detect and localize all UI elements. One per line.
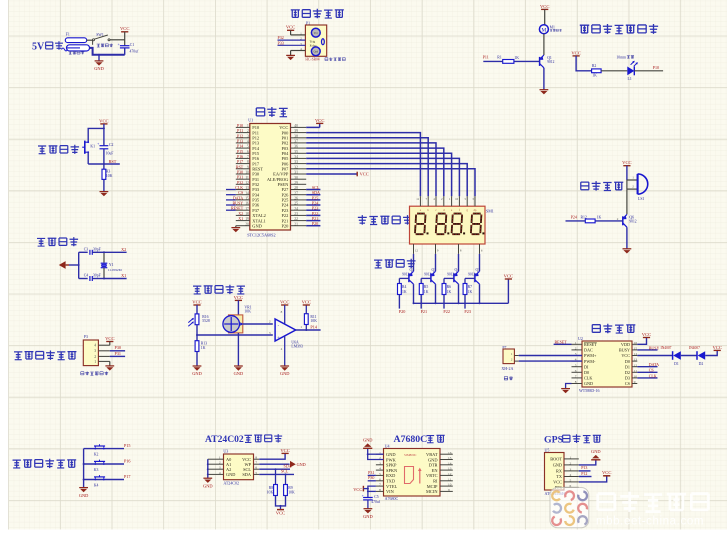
svg-text:27: 27 — [294, 191, 298, 195]
svg-text:P31: P31 — [368, 470, 374, 475]
wire — [103, 149, 105, 169]
svg-text:9012: 9012 — [424, 273, 431, 277]
svg-text:7: 7 — [379, 483, 381, 487]
svg-text:R6: R6 — [447, 285, 452, 289]
svg-text:1: 1 — [570, 456, 572, 460]
svg-text:D3: D3 — [625, 376, 630, 381]
svg-text:R4: R4 — [402, 285, 407, 289]
svg-text:VCC: VCC — [642, 332, 651, 337]
svg-text:P23: P23 — [464, 309, 471, 314]
wire left rail — [207, 459, 209, 478]
power VCC — [504, 273, 513, 279]
wire — [507, 279, 509, 303]
svg-text:P17: P17 — [124, 474, 131, 479]
svg-text:6: 6 — [379, 477, 381, 481]
pin 1 A0 — [208, 456, 231, 462]
pin 5 P14 — [236, 145, 260, 151]
wire P07 to display — [306, 169, 475, 196]
connector 电源接口 — [62, 45, 90, 51]
pin 15 BUSY — [619, 347, 638, 353]
pin 11 — [416, 196, 422, 212]
svg-text:10K: 10K — [288, 490, 295, 494]
svg-text:11: 11 — [416, 197, 419, 201]
wire — [280, 506, 282, 510]
ground — [105, 366, 114, 371]
svg-text:24: 24 — [294, 207, 298, 211]
power VCC — [99, 118, 108, 124]
pushbutton K1 — [82, 141, 89, 154]
svg-text:22: 22 — [294, 217, 298, 221]
svg-text:+: + — [277, 334, 280, 339]
ground — [363, 509, 373, 519]
svg-text:25: 25 — [294, 202, 298, 206]
pin 6 TXD — [376, 477, 395, 483]
svg-text:P30: P30 — [115, 345, 122, 350]
svg-text:1K: 1K — [424, 290, 429, 294]
svg-text:2: 2 — [570, 462, 572, 466]
ground — [234, 366, 244, 376]
pin 9 CS — [625, 380, 637, 386]
svg-text:P22: P22 — [443, 309, 450, 314]
wire — [306, 214, 320, 216]
wire — [196, 325, 198, 341]
svg-text:34: 34 — [294, 155, 298, 159]
svg-text:R5: R5 — [424, 285, 429, 289]
pin 21 P20 — [281, 222, 306, 228]
wire — [626, 180, 628, 189]
svg-text:GND: GND — [203, 483, 213, 488]
svg-text:1K: 1K — [597, 215, 602, 219]
svg-text:MCIN: MCIN — [426, 489, 438, 494]
svg-text:D1: D1 — [625, 364, 630, 369]
wire to op-amp in+ — [197, 334, 273, 336]
svg-text:VCC: VCC — [286, 25, 295, 30]
pin 2 DAC — [572, 347, 594, 353]
svg-text:VCC: VCC — [105, 336, 114, 341]
wire — [104, 278, 127, 280]
pin 4 SPKN — [376, 467, 398, 473]
capacitor C3 — [90, 250, 92, 255]
switch SW1 — [93, 35, 111, 41]
wire — [306, 220, 320, 222]
wire — [544, 9, 546, 25]
display SM1 — [410, 206, 486, 244]
pin 16 VBAT — [426, 451, 453, 457]
svg-text:D2: D2 — [625, 370, 630, 375]
label 电源接口 — [69, 51, 85, 55]
pin 5 — [464, 196, 468, 212]
pin 2 PWK — [376, 456, 397, 462]
svg-text:7: 7 — [255, 461, 257, 465]
pin 11 D2 — [625, 369, 637, 375]
pin 32 P07 — [281, 165, 306, 171]
svg-text:13: 13 — [634, 358, 638, 362]
pin 8 — [459, 244, 462, 254]
svg-text:1K: 1K — [592, 74, 597, 78]
wire P01 to display — [306, 138, 428, 196]
resistor R5 1K — [419, 284, 423, 295]
wire — [579, 476, 592, 478]
wire — [259, 463, 289, 465]
svg-text:31: 31 — [294, 171, 298, 175]
pin 8 VIN — [376, 488, 395, 494]
wire base — [421, 277, 431, 279]
svg-text:39: 39 — [294, 129, 298, 133]
pin 33 P06 — [281, 160, 306, 166]
svg-text:P20: P20 — [281, 223, 289, 228]
svg-text:9: 9 — [448, 488, 450, 492]
wire — [87, 39, 93, 41]
wire — [103, 124, 105, 128]
pin 16 VDD — [621, 341, 637, 347]
svg-text:2: 2 — [300, 37, 302, 41]
svg-text:10K: 10K — [106, 174, 113, 178]
pin 31 EA/VPP — [273, 171, 306, 177]
svg-text:GND: GND — [192, 371, 202, 376]
svg-text:VCC: VCC — [571, 50, 580, 55]
pin 20 GND — [236, 222, 262, 228]
pin 8 GND — [572, 380, 594, 386]
svg-text:12: 12 — [245, 181, 249, 185]
pin 25 P24 — [281, 202, 306, 208]
digit 2 — [436, 214, 450, 235]
svg-text:Y1: Y1 — [109, 263, 114, 267]
svg-text:2: 2 — [219, 461, 221, 465]
wire — [464, 278, 466, 283]
svg-text:K2: K2 — [94, 452, 99, 456]
wire — [196, 305, 198, 314]
svg-text:MCIP: MCIP — [427, 484, 438, 489]
wire — [226, 209, 236, 211]
wire — [637, 338, 646, 345]
svg-text:P21: P21 — [421, 309, 428, 314]
svg-text:9012: 9012 — [447, 273, 454, 277]
svg-text:VCC: VCC — [276, 511, 285, 516]
svg-text:32: 32 — [294, 165, 298, 169]
svg-text:Q4: Q4 — [455, 268, 460, 272]
pin 24 P23 — [281, 207, 306, 213]
pin 7 VTEL — [376, 483, 398, 489]
power VCC — [602, 470, 611, 476]
svg-text:5: 5 — [247, 145, 249, 149]
svg-text:8: 8 — [575, 380, 577, 384]
power VCC — [712, 345, 721, 351]
svg-text:GND: GND — [226, 472, 235, 477]
svg-text:5: 5 — [570, 479, 572, 483]
svg-text:1K: 1K — [447, 290, 452, 294]
svg-text:WT588D-16: WT588D-16 — [579, 388, 599, 393]
pin 10 MCIP — [427, 483, 453, 489]
wire — [79, 251, 88, 253]
svg-text:LM393: LM393 — [291, 345, 302, 349]
wire — [637, 355, 672, 357]
wire — [104, 251, 127, 253]
svg-text:40: 40 — [294, 124, 298, 128]
svg-text:GND: GND — [386, 452, 396, 457]
pin 23 P22 — [281, 212, 306, 218]
svg-text:RESET: RESET — [584, 342, 597, 347]
ground — [561, 389, 570, 394]
digit 1 — [415, 214, 429, 235]
svg-text:U3: U3 — [223, 449, 228, 454]
svg-text:RST: RST — [109, 159, 117, 164]
pin 5 RXD — [376, 472, 395, 478]
svg-text:33: 33 — [294, 160, 298, 164]
crystal Y1 — [101, 263, 108, 268]
svg-text:Gnd: Gnd — [314, 51, 319, 54]
svg-text:P15: P15 — [124, 443, 131, 448]
wire — [705, 350, 717, 355]
power VCC — [571, 50, 580, 56]
wire — [368, 453, 384, 455]
wire collector — [479, 284, 481, 303]
svg-text:K1: K1 — [90, 145, 95, 149]
light arrows — [188, 318, 194, 326]
svg-text:VBAT: VBAT — [426, 452, 438, 457]
pin 14 VCC — [621, 352, 637, 358]
svg-text:BUSY: BUSY — [619, 348, 630, 353]
svg-text:AT24C02: AT24C02 — [223, 480, 239, 485]
svg-text:10uF: 10uF — [106, 151, 114, 155]
watermark text 面包板社区 — [598, 492, 709, 512]
svg-text:1: 1 — [247, 124, 249, 128]
title 复位电路 — [38, 145, 79, 154]
svg-text:SW1: SW1 — [96, 33, 104, 37]
svg-text:C4: C4 — [84, 273, 89, 277]
svg-text:GND: GND — [234, 371, 244, 376]
svg-text:D0: D0 — [584, 370, 589, 375]
svg-text:29: 29 — [294, 181, 298, 185]
wire — [124, 48, 126, 55]
svg-text:mbb.eet-china.com: mbb.eet-china.com — [596, 516, 704, 528]
svg-text:VCC: VCC — [234, 295, 243, 300]
wire — [110, 350, 125, 352]
pin 15 P35 — [236, 197, 260, 203]
wire — [226, 194, 236, 196]
resistor R7 1K — [463, 284, 467, 295]
pin 40 VCC — [279, 124, 306, 130]
wire — [576, 56, 592, 71]
svg-text:4: 4 — [247, 140, 249, 144]
wire — [259, 453, 285, 459]
pin 8 P17 — [236, 160, 260, 166]
pin 1 RESET — [572, 341, 598, 347]
wire base — [465, 277, 475, 279]
svg-text:U5: U5 — [545, 448, 550, 453]
resistor R9 10K — [284, 485, 288, 496]
wire — [103, 128, 105, 145]
wire output — [296, 329, 321, 331]
pin 14 DTR — [429, 461, 453, 467]
ground — [94, 61, 104, 71]
wire — [306, 204, 320, 206]
wire — [259, 468, 290, 470]
title 震动马达与雾灯 — [580, 24, 658, 34]
svg-text:2: 2 — [575, 347, 577, 351]
svg-text:17: 17 — [245, 207, 249, 211]
wire — [637, 349, 657, 351]
svg-text:P33: P33 — [278, 40, 284, 45]
wire — [579, 470, 591, 472]
svg-text:36: 36 — [294, 145, 298, 149]
svg-text:30pF: 30pF — [93, 247, 101, 251]
ground (up) — [363, 438, 373, 449]
ground — [623, 249, 632, 254]
wire — [464, 295, 466, 309]
wire — [483, 60, 502, 62]
svg-text:+: + — [118, 43, 120, 47]
svg-text:DATA: DATA — [649, 362, 659, 367]
pin 13 P33 — [236, 186, 260, 192]
svg-text:GND: GND — [553, 463, 562, 468]
svg-text:12: 12 — [415, 248, 419, 252]
wire — [226, 189, 236, 191]
svg-text:X1: X1 — [121, 273, 126, 278]
svg-text:A7680C: A7680C — [385, 496, 399, 501]
svg-text:P14: P14 — [310, 325, 317, 330]
pin 3 SPKP — [376, 461, 397, 467]
pin 17 P37 — [236, 207, 260, 213]
svg-text:K4: K4 — [94, 483, 99, 487]
title 光检测模块 — [193, 285, 245, 294]
pin 11 P31 — [236, 176, 259, 182]
svg-text:RXD: RXD — [386, 473, 395, 478]
svg-text:7: 7 — [247, 155, 249, 159]
svg-text:U4: U4 — [385, 443, 390, 448]
transistor Q2 9012 — [409, 271, 414, 284]
resistor R8 10K — [274, 485, 278, 496]
wire — [398, 295, 400, 309]
pin 14 P34 — [236, 191, 260, 197]
svg-text:14: 14 — [634, 352, 638, 356]
svg-text:BUSY: BUSY — [649, 345, 660, 350]
power VCC — [286, 25, 295, 31]
wire — [566, 220, 586, 222]
pin 4 TX — [556, 473, 579, 479]
svg-text:Echo: Echo — [310, 43, 317, 47]
svg-text:5V: 5V — [32, 41, 45, 52]
wire — [84, 448, 124, 450]
svg-text:37: 37 — [294, 140, 298, 144]
pin 12 P32 — [236, 181, 259, 187]
wire — [579, 460, 596, 465]
power VCC — [642, 332, 651, 338]
power VCC (down) — [276, 510, 285, 516]
wire PWM+ — [519, 355, 582, 357]
svg-text:f: f — [459, 209, 460, 212]
svg-text:PWM-: PWM- — [584, 359, 596, 364]
pin 5 SDA — [242, 471, 259, 477]
wire — [124, 32, 126, 46]
wire — [284, 337, 286, 367]
svg-text:35: 35 — [294, 150, 298, 154]
wire — [368, 448, 384, 459]
svg-text:C1: C1 — [130, 43, 135, 47]
wire — [368, 480, 376, 482]
wire — [196, 352, 198, 367]
pin 6 D0 — [572, 369, 590, 375]
svg-text:X2: X2 — [121, 247, 126, 252]
svg-text:VCC: VCC — [353, 487, 362, 492]
pin 7 — [425, 196, 429, 212]
wire — [90, 48, 125, 55]
svg-text:VCC: VCC — [99, 118, 108, 123]
diode D1 IN4007 — [673, 351, 681, 360]
svg-text:15: 15 — [634, 347, 638, 351]
buzzer LS1 — [638, 174, 648, 194]
svg-text:11: 11 — [245, 176, 249, 180]
wire — [98, 55, 100, 61]
svg-text:A7680C: A7680C — [394, 434, 428, 445]
svg-text:C5: C5 — [374, 495, 379, 499]
wire — [306, 199, 320, 201]
svg-text:19: 19 — [245, 217, 249, 221]
wire — [306, 126, 320, 128]
pin 28 P27 — [281, 186, 306, 192]
svg-text:6: 6 — [255, 466, 257, 470]
svg-text:4: 4 — [570, 473, 572, 477]
svg-text:1: 1 — [300, 31, 302, 35]
svg-text:P31: P31 — [115, 351, 122, 356]
svg-text:STC12C5A60S2: STC12C5A60S2 — [247, 232, 275, 237]
svg-text:2: 2 — [269, 320, 271, 324]
LED L1 10mm — [627, 61, 638, 76]
wire — [84, 479, 124, 481]
svg-text:PWK: PWK — [386, 457, 397, 462]
svg-text:EN: EN — [432, 468, 439, 473]
wire — [79, 278, 88, 280]
pin 2 A1 — [208, 461, 231, 467]
diode D2 IN4007 — [697, 351, 705, 360]
transducer circle Gnd — [311, 47, 320, 56]
svg-text:3: 3 — [300, 42, 302, 46]
wire — [103, 268, 105, 279]
svg-text:VCC: VCC — [192, 299, 201, 304]
pin 3 — [278, 42, 306, 46]
label 喇叭 — [504, 376, 513, 380]
svg-text:1K: 1K — [514, 56, 519, 60]
svg-text:12: 12 — [634, 363, 638, 367]
pin 12 D1 — [625, 363, 638, 369]
pin 2 GND — [553, 462, 579, 468]
wire — [601, 70, 627, 72]
wire collector — [413, 284, 415, 303]
svg-text:GND: GND — [591, 449, 601, 454]
ground — [231, 228, 240, 233]
wire — [78, 252, 80, 278]
wire — [259, 473, 294, 475]
pin 7 WP — [245, 461, 260, 467]
svg-text:DAC: DAC — [584, 348, 593, 353]
title 单片机 — [256, 107, 287, 117]
pin 12 — [414, 244, 419, 254]
wire — [420, 278, 422, 283]
op-amp U6A LM393 — [275, 319, 296, 341]
svg-text:10K: 10K — [267, 490, 274, 494]
resistor R3 — [102, 169, 106, 179]
title AT24C02存储电路 — [205, 434, 244, 445]
ground — [192, 366, 202, 376]
wire — [413, 254, 415, 271]
wire — [110, 355, 125, 357]
wire pin1 — [627, 179, 637, 181]
title 数码管显示 — [358, 215, 412, 225]
svg-text:RX: RX — [556, 469, 563, 474]
svg-text:R12: R12 — [581, 215, 587, 219]
svg-text:3: 3 — [379, 461, 381, 465]
wire — [275, 469, 277, 484]
oval marker — [322, 39, 325, 45]
